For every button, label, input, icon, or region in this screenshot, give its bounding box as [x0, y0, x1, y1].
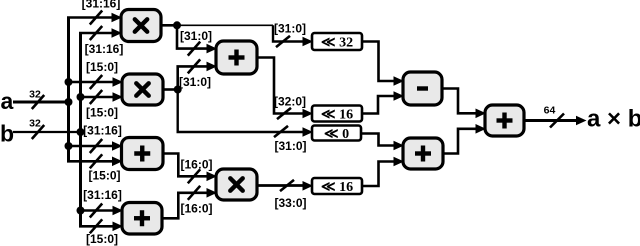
- slash P2 [31:0] to S3: [274, 126, 288, 137]
- final adder U9: [485, 105, 524, 136]
- svg-text:[32:0]: [32:0]: [274, 95, 306, 109]
- wire: input a to a-bus: [13, 101, 69, 104]
- svg-text:[33:0]: [33:0]: [274, 196, 306, 210]
- shifter S1 (<< 32): [312, 33, 362, 51]
- subtractor U7: [403, 72, 442, 105]
- wire: S3 output to adder U8: [360, 134, 395, 146]
- wire: b[15:0] to U4: [79, 225, 113, 228]
- junction: bus a tap for U3: [65, 142, 73, 150]
- wire: a[15:0] to U3: [67, 160, 113, 163]
- svg-text:b: b: [0, 121, 14, 147]
- wire: U6 output to shifter S4: [256, 184, 303, 187]
- wire: b[15:0] to U2: [81, 96, 114, 99]
- bus a (vertical): [67, 18, 70, 162]
- wire: U4 output to multiplier U6: [161, 193, 208, 219]
- junction: a input on bus a: [65, 98, 73, 106]
- svg-text:≪ 0: ≪ 0: [324, 127, 349, 142]
- wire: U5 output to shifter S2: [256, 58, 303, 114]
- bus-width slash on b: [32, 125, 44, 139]
- slash a[31:16]: [90, 11, 102, 25]
- slash [33:0] to S4: [280, 180, 294, 191]
- junction: U2 output branch: [174, 86, 182, 94]
- svg-text:32: 32: [29, 89, 41, 101]
- slash P1 [31:0] to S1: [276, 36, 290, 47]
- wire: U1 out to shifter S1 (up path): [177, 24, 273, 26]
- wire: U7 output to final adder U9: [441, 89, 477, 114]
- slash output 64: [550, 114, 564, 128]
- slash P2 [31:0] to U5: [188, 59, 200, 73]
- adder U8: [403, 138, 443, 169]
- wire: U1 out down to adder U5: [177, 25, 208, 48]
- junction: bus a tap for U2: [65, 78, 73, 86]
- multiplier U1 (a_hi x b_hi): [121, 10, 161, 42]
- wire: a[31:16] to U3: [69, 145, 114, 148]
- svg-text:[16:0]: [16:0]: [180, 158, 212, 172]
- svg-text:32: 32: [29, 118, 41, 130]
- wire: U3 output to multiplier U6: [162, 154, 208, 177]
- slash [16:0] (U6 top): [188, 169, 200, 183]
- slash a[15:0] (U3): [90, 154, 102, 168]
- svg-text:[15:0]: [15:0]: [86, 106, 118, 120]
- svg-text:64: 64: [544, 105, 556, 117]
- wire: U1 output to branch node: [160, 24, 177, 27]
- wire: U2 out up to adder U5: [178, 66, 208, 89]
- junction: b input on bus b: [77, 128, 85, 136]
- svg-text:[31:0]: [31:0]: [180, 29, 212, 43]
- slash b[31:16]: [90, 26, 102, 40]
- svg-text:[31:16]: [31:16]: [82, 0, 121, 11]
- svg-text:[15:0]: [15:0]: [86, 232, 118, 246]
- slash b[15:0] (U4): [90, 219, 102, 233]
- svg-text:[16:0]: [16:0]: [180, 202, 212, 216]
- adder U5 (P1 + P2): [216, 41, 257, 74]
- slash b[15:0]: [90, 90, 102, 104]
- svg-text:[31:0]: [31:0]: [274, 22, 306, 36]
- svg-text:[15:0]: [15:0]: [86, 60, 118, 74]
- svg-text:[31:16]: [31:16]: [83, 124, 122, 138]
- svg-text:a × b: a × b: [587, 106, 640, 133]
- slash a[31:16] (U3): [90, 139, 102, 153]
- wire: S2 output to subtractor U7: [361, 96, 395, 114]
- svg-text:a: a: [1, 88, 14, 114]
- junction: bus b tap for U2: [77, 93, 85, 101]
- wire: U9 output: [523, 119, 576, 122]
- multiplier U6 ((a_hi+a_lo) x (b_hi+b_lo)): [216, 169, 257, 200]
- svg-text:≪ 32: ≪ 32: [321, 36, 353, 51]
- junction: bus b tap for U4: [77, 207, 85, 215]
- svg-text:≪ 16: ≪ 16: [321, 108, 353, 123]
- svg-text:[15:0]: [15:0]: [88, 169, 120, 183]
- wire: U2 out down to shifter S3: [178, 90, 303, 133]
- wire: S4 output to adder U8: [361, 162, 395, 187]
- svg-text:[31:0]: [31:0]: [179, 75, 211, 89]
- wire: input b to b-bus: [13, 131, 81, 133]
- svg-text:[31:16]: [31:16]: [85, 42, 124, 56]
- svg-text:[31:0]: [31:0]: [274, 139, 306, 153]
- svg-text:≪ 16: ≪ 16: [321, 180, 353, 195]
- wire: b[31:16] to U1: [79, 32, 112, 35]
- multiplier U2 (a_lo x b_lo): [122, 74, 163, 105]
- slash b[31:16] (U4): [90, 204, 102, 218]
- bus b (vertical): [79, 33, 82, 226]
- slash P1 [31:0] to U5: [188, 42, 200, 56]
- slash a[15:0]: [90, 75, 102, 89]
- adder U4 (b_hi + b_lo): [122, 203, 162, 235]
- wire: a[31:16] to U1: [67, 16, 112, 19]
- junction: U1 output branch: [173, 21, 181, 29]
- svg-text:[31:16]: [31:16]: [83, 188, 122, 202]
- shifter S3 (<< 0): [312, 126, 361, 143]
- shifter S2 (<< 16): [312, 106, 362, 123]
- wire: U8 output to final adder U9: [442, 129, 477, 154]
- slash [32:0] to S2: [277, 108, 291, 119]
- wire: a[15:0] to U2: [69, 81, 114, 84]
- wire: b[31:16] to U4: [81, 209, 114, 212]
- wire: S1 output to subtractor U7: [361, 42, 395, 82]
- adder U3 (a_hi + a_lo): [122, 138, 164, 170]
- shifter S4 (<< 16): [312, 178, 362, 195]
- bus-width slash on a: [32, 95, 44, 109]
- slash [16:0] (U6 bottom): [188, 186, 200, 200]
- wire: U2 output to branch node: [162, 88, 178, 91]
